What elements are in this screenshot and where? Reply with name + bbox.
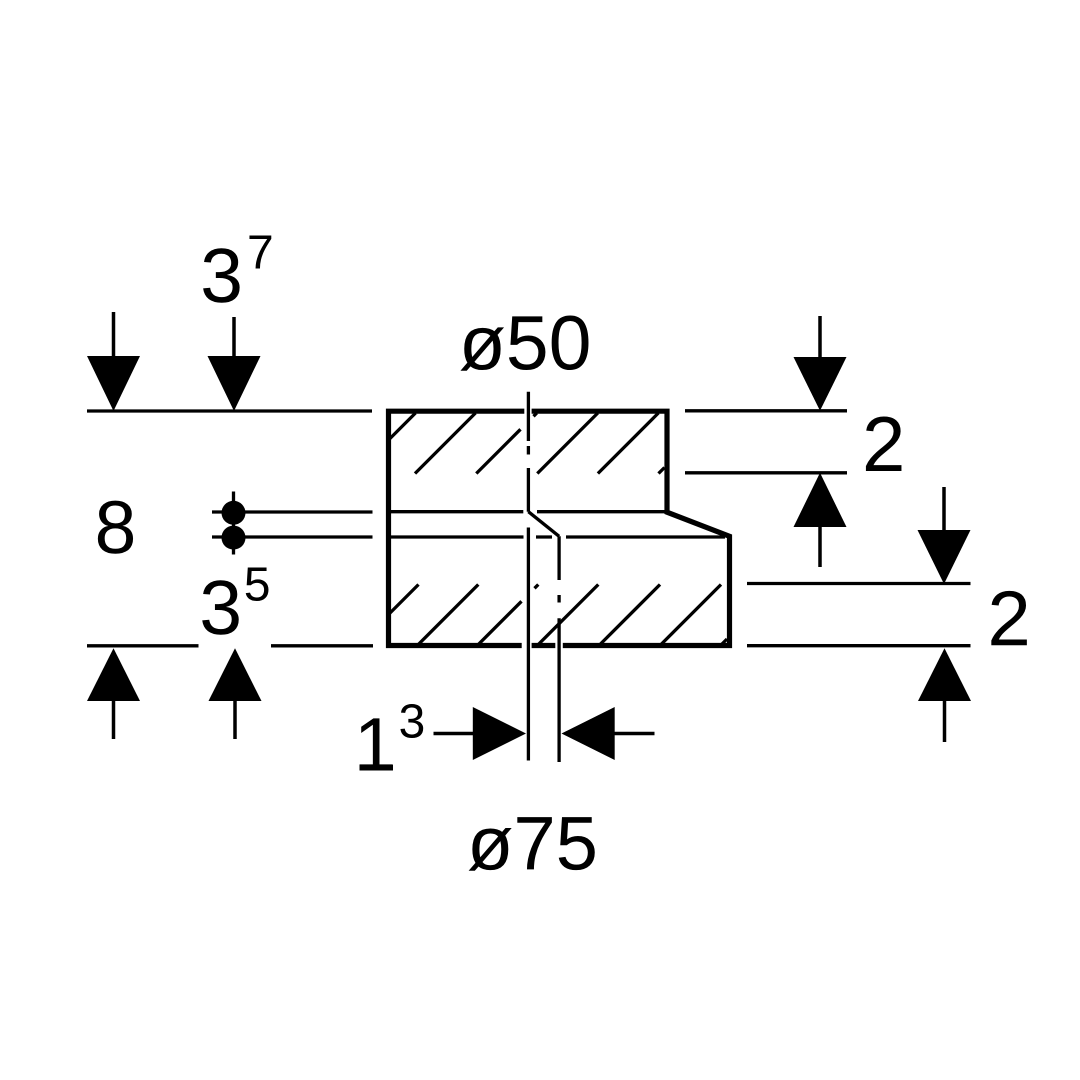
- dot lower (8 dim): [222, 526, 246, 550]
- label ø50: [460, 327, 504, 370]
- stem arrow left A10: [614, 732, 655, 736]
- arrowhead down A2: [208, 356, 261, 411]
- label 8: [98, 501, 133, 554]
- arrowhead down A5 (tip y=411): [794, 357, 847, 411]
- arrowhead up A3 (tip y=647): [87, 648, 140, 701]
- label superscript 7: [249, 235, 271, 268]
- hatch stroke B7 (lower wall corner): [722, 639, 728, 645]
- extension line 8-lower (y=537): [212, 535, 373, 538]
- stem arrow up A3: [112, 698, 116, 739]
- extension line bottom-left (y=646): [87, 644, 373, 647]
- label 3 (top): [203, 248, 240, 303]
- inner bore line upper (y=511.7): [389, 510, 666, 513]
- hatch stroke T3 (upper wall, broken at centerline): [476, 413, 537, 474]
- hatch stroke T1 (upper wall): [389, 413, 416, 440]
- centerline ø50 (dash-dot, x=528.4): [527, 392, 530, 512]
- extension line 8-upper (y=512): [212, 510, 373, 513]
- label 2 (bottom right): [991, 591, 1027, 645]
- label 3 (mid): [202, 580, 239, 635]
- arrow stems: [114, 312, 945, 742]
- arrowhead up A6 (tip y=472.3): [794, 473, 847, 527]
- centerline ø50 extension below (solid, x=528.4): [527, 528, 530, 761]
- hatch stroke B6 (lower wall): [661, 585, 721, 645]
- centerline jog (eccentric offset): [528, 512, 559, 537]
- arrowhead up A4: [209, 648, 262, 701]
- hatch stroke B5 (lower wall): [600, 585, 660, 645]
- hatch stroke T4 (upper wall): [537, 413, 598, 474]
- label ø75: [469, 828, 512, 871]
- label 2 (top right): [866, 417, 902, 471]
- arrowhead down A1 (tip y=410): [87, 356, 140, 411]
- hatch stroke T6 (upper wall corner): [659, 468, 665, 474]
- stem arrow down A1: [112, 312, 116, 359]
- body outline (reducer cross-section, thick): [389, 411, 730, 645]
- arrowhead up A8 (tip y=647): [918, 648, 971, 701]
- stem arrow down A2: [232, 317, 236, 359]
- extension line right lower-top (y=584): [747, 582, 971, 585]
- stem arrow down A5: [818, 316, 822, 360]
- label 1 foot serif: [360, 765, 394, 771]
- arrowhead left A10 (tip x=561.5): [562, 707, 615, 760]
- extension line right bottom (y=645.5): [747, 644, 971, 647]
- arrowhead down A7 (tip y=584): [918, 530, 971, 584]
- hatch stroke B1 (lower wall corner): [389, 585, 419, 615]
- dot upper (8 dim): [222, 501, 246, 525]
- tick through dots: [232, 492, 235, 555]
- hatch stroke B4 (lower wall): [538, 585, 598, 645]
- hatch stroke B2 (lower wall): [418, 585, 478, 645]
- centerline ø75 (x=559.1): [557, 536, 560, 762]
- hatch stroke T2 (upper wall): [415, 413, 476, 474]
- inner bore line lower (y=537): [389, 535, 726, 538]
- extension line right top (y=411.2): [685, 409, 847, 412]
- hatch stroke B3 (lower wall, broken at centerline): [478, 585, 538, 645]
- stem arrow up A4: [233, 698, 237, 739]
- extension line right inner (y=472.3): [685, 471, 847, 474]
- stem arrow up A6: [818, 527, 822, 567]
- hatch stroke T5 (upper wall): [598, 413, 659, 474]
- label superscript 5: [246, 567, 269, 600]
- dimension line top-left (y=410): [87, 409, 372, 412]
- arrowhead right A9 (tip x=526): [473, 707, 526, 760]
- stem arrow down A7: [942, 487, 946, 532]
- stem arrow right A9: [434, 732, 475, 736]
- stem arrow up A8: [943, 700, 947, 742]
- label 1: [360, 718, 392, 770]
- label superscript 3: [400, 704, 423, 738]
